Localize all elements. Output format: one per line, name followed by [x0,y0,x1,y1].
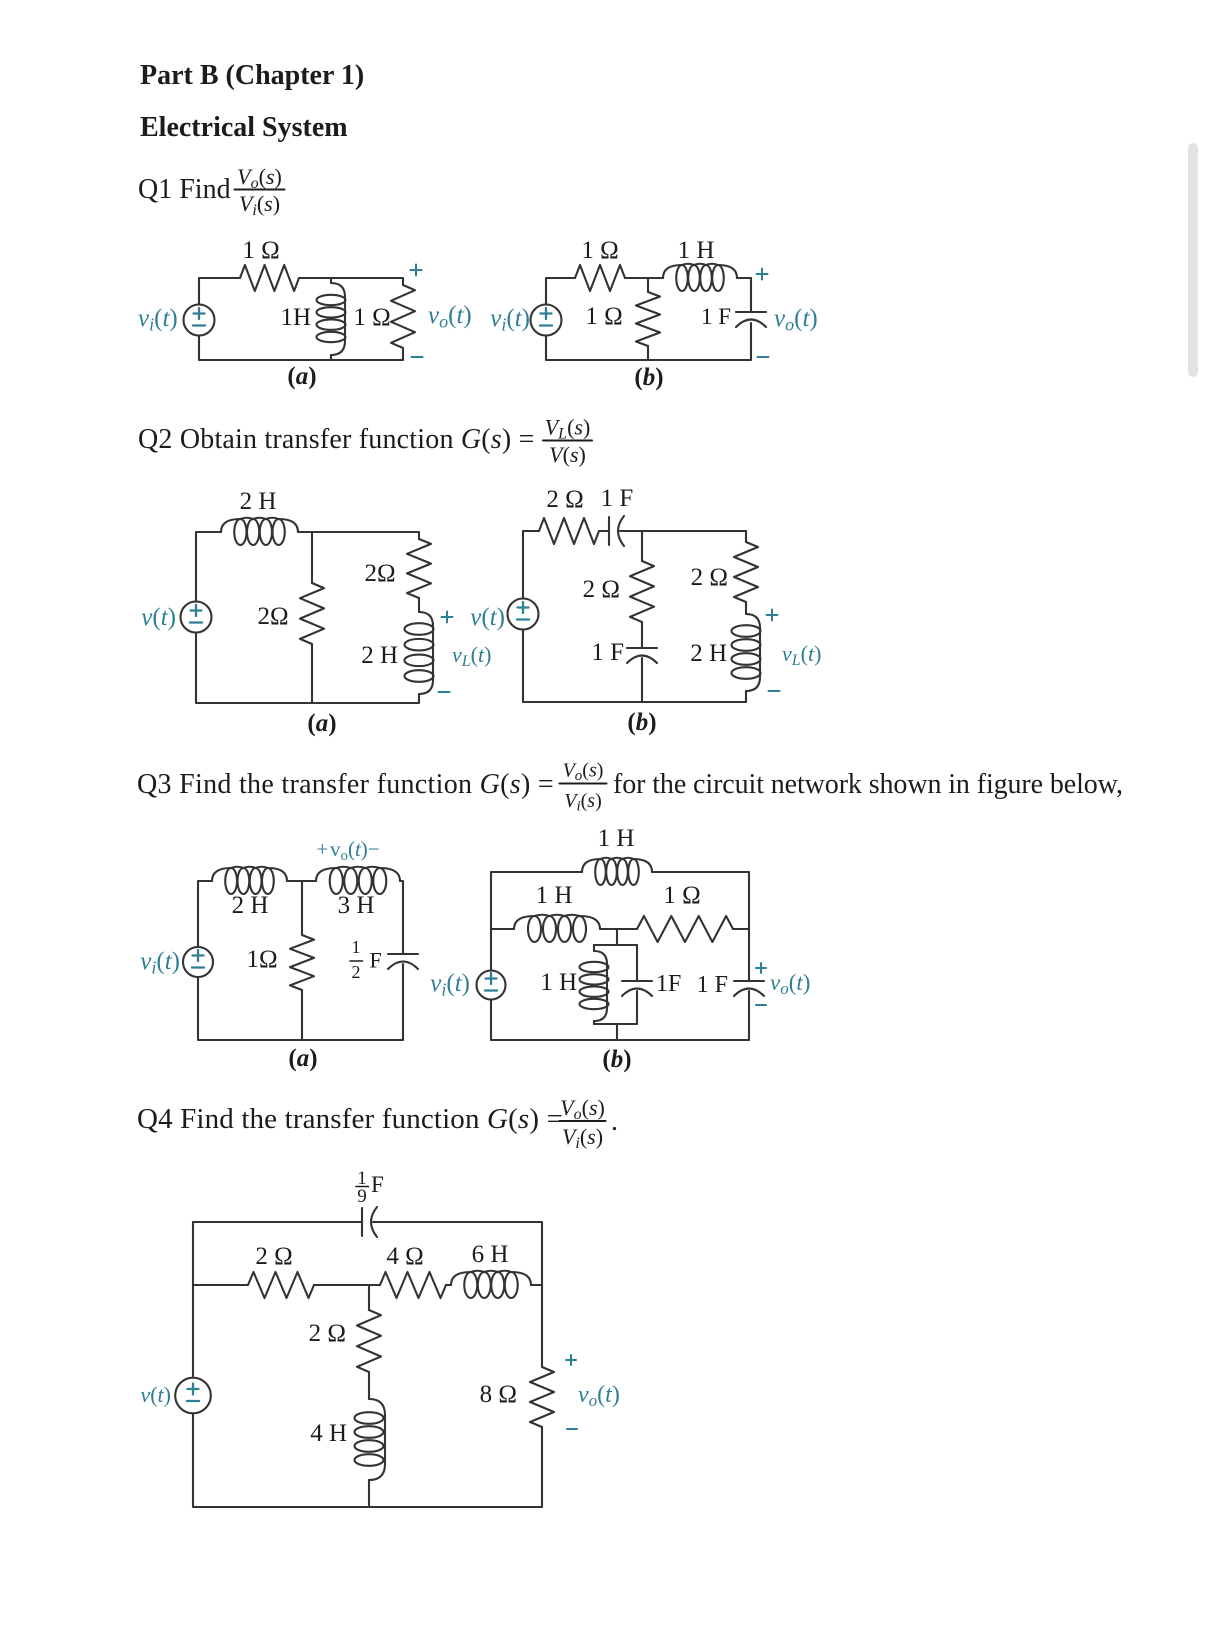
svg-text:vL(t): vL(t) [452,642,491,670]
svg-text:2 H: 2 H [361,642,398,669]
svg-text:Vo(s): Vo(s) [560,1095,605,1123]
svg-text:1 Ω: 1 Ω [581,237,618,264]
svg-text:(b): (b) [627,709,656,736]
svg-text:v(t): v(t) [141,604,176,631]
svg-text:1 F: 1 F [697,972,728,998]
svg-text:1Ω: 1Ω [246,946,277,973]
svg-text:2 H: 2 H [232,892,269,919]
svg-text:Q4 Find the transfer function: Q4 Find the transfer function G(s) = [137,1103,563,1135]
svg-text:1 F: 1 F [591,639,624,666]
svg-text:(a): (a) [287,363,316,390]
svg-text:1 Ω: 1 Ω [663,882,700,909]
svg-text:2 Ω: 2 Ω [691,564,728,591]
svg-text:1 H: 1 H [536,882,573,909]
svg-text:Q2 Obtain transfer function G(: Q2 Obtain transfer function G(s) = [138,424,535,455]
svg-text:6 H: 6 H [472,1241,509,1268]
svg-text:F: F [370,948,382,973]
svg-text:Q1 Find: Q1 Find [138,174,231,205]
svg-text:2Ω: 2Ω [364,560,395,587]
svg-text:1H: 1H [280,304,311,331]
svg-text:vi(t): vi(t) [490,305,530,335]
svg-text:1 H: 1 H [540,969,577,996]
svg-text:(a): (a) [288,1045,317,1072]
svg-text:1 Ω: 1 Ω [242,237,279,264]
svg-text:Q3 Find the transfer function: Q3 Find the transfer function G(s) = [137,769,554,800]
svg-text:V(s): V(s) [549,442,586,467]
svg-text:Vi(s): Vi(s) [239,191,280,219]
svg-text:1 H: 1 H [678,237,715,264]
svg-text:(b): (b) [602,1046,631,1073]
svg-text:vo(t): vo(t) [770,970,810,998]
svg-text:Vi(s): Vi(s) [564,790,602,815]
svg-text:4 Ω: 4 Ω [386,1243,423,1270]
svg-text:Vo(s): Vo(s) [563,760,604,785]
svg-text:vi(t): vi(t) [138,305,178,335]
svg-text:(a): (a) [307,710,336,737]
svg-text:vo(t): vo(t) [578,1382,620,1410]
svg-text:2 H: 2 H [690,640,727,667]
svg-text:9: 9 [357,1186,367,1207]
svg-text:(b): (b) [634,364,663,391]
svg-text:8 Ω: 8 Ω [480,1381,517,1408]
svg-text:VL(s): VL(s) [545,415,591,443]
svg-text:Part B (Chapter 1): Part B (Chapter 1) [140,60,364,91]
svg-text:vi(t): vi(t) [140,948,180,978]
svg-text:.: . [611,1106,618,1137]
svg-text:2 Ω: 2 Ω [546,486,583,513]
svg-text:1 F: 1 F [601,485,634,512]
svg-text:Vo(s): Vo(s) [237,164,282,192]
svg-text:1: 1 [352,937,361,957]
svg-text:vL(t): vL(t) [782,641,821,669]
svg-text:Vi(s): Vi(s) [562,1124,603,1152]
svg-text:1F: 1F [656,971,681,997]
svg-text:v(t): v(t) [470,604,505,631]
svg-text:1 Ω: 1 Ω [585,303,622,330]
svg-text:1 Ω: 1 Ω [353,304,390,331]
svg-text:Electrical System: Electrical System [140,112,348,143]
svg-text:v(t): v(t) [140,1382,171,1407]
svg-text:1 H: 1 H [598,825,635,852]
svg-text:2 Ω: 2 Ω [255,1243,292,1270]
svg-text:3 H: 3 H [338,892,375,919]
svg-text:2Ω: 2Ω [257,603,288,630]
svg-text:F: F [371,1172,384,1197]
svg-text:+ vo(t)−: + vo(t)− [316,837,379,864]
svg-text:4 H: 4 H [310,1420,347,1447]
svg-text:vi(t): vi(t) [430,970,470,1000]
svg-text:2: 2 [352,962,361,982]
svg-text:1 F: 1 F [701,304,731,329]
svg-text:2 Ω: 2 Ω [309,1320,346,1347]
svg-text:2 H: 2 H [240,488,277,515]
svg-text:2 Ω: 2 Ω [583,576,620,603]
svg-text:vo(t): vo(t) [774,305,818,335]
svg-text:for the circuit network shown: for the circuit network shown in figure … [613,769,1123,800]
svg-text:vo(t): vo(t) [428,302,472,332]
